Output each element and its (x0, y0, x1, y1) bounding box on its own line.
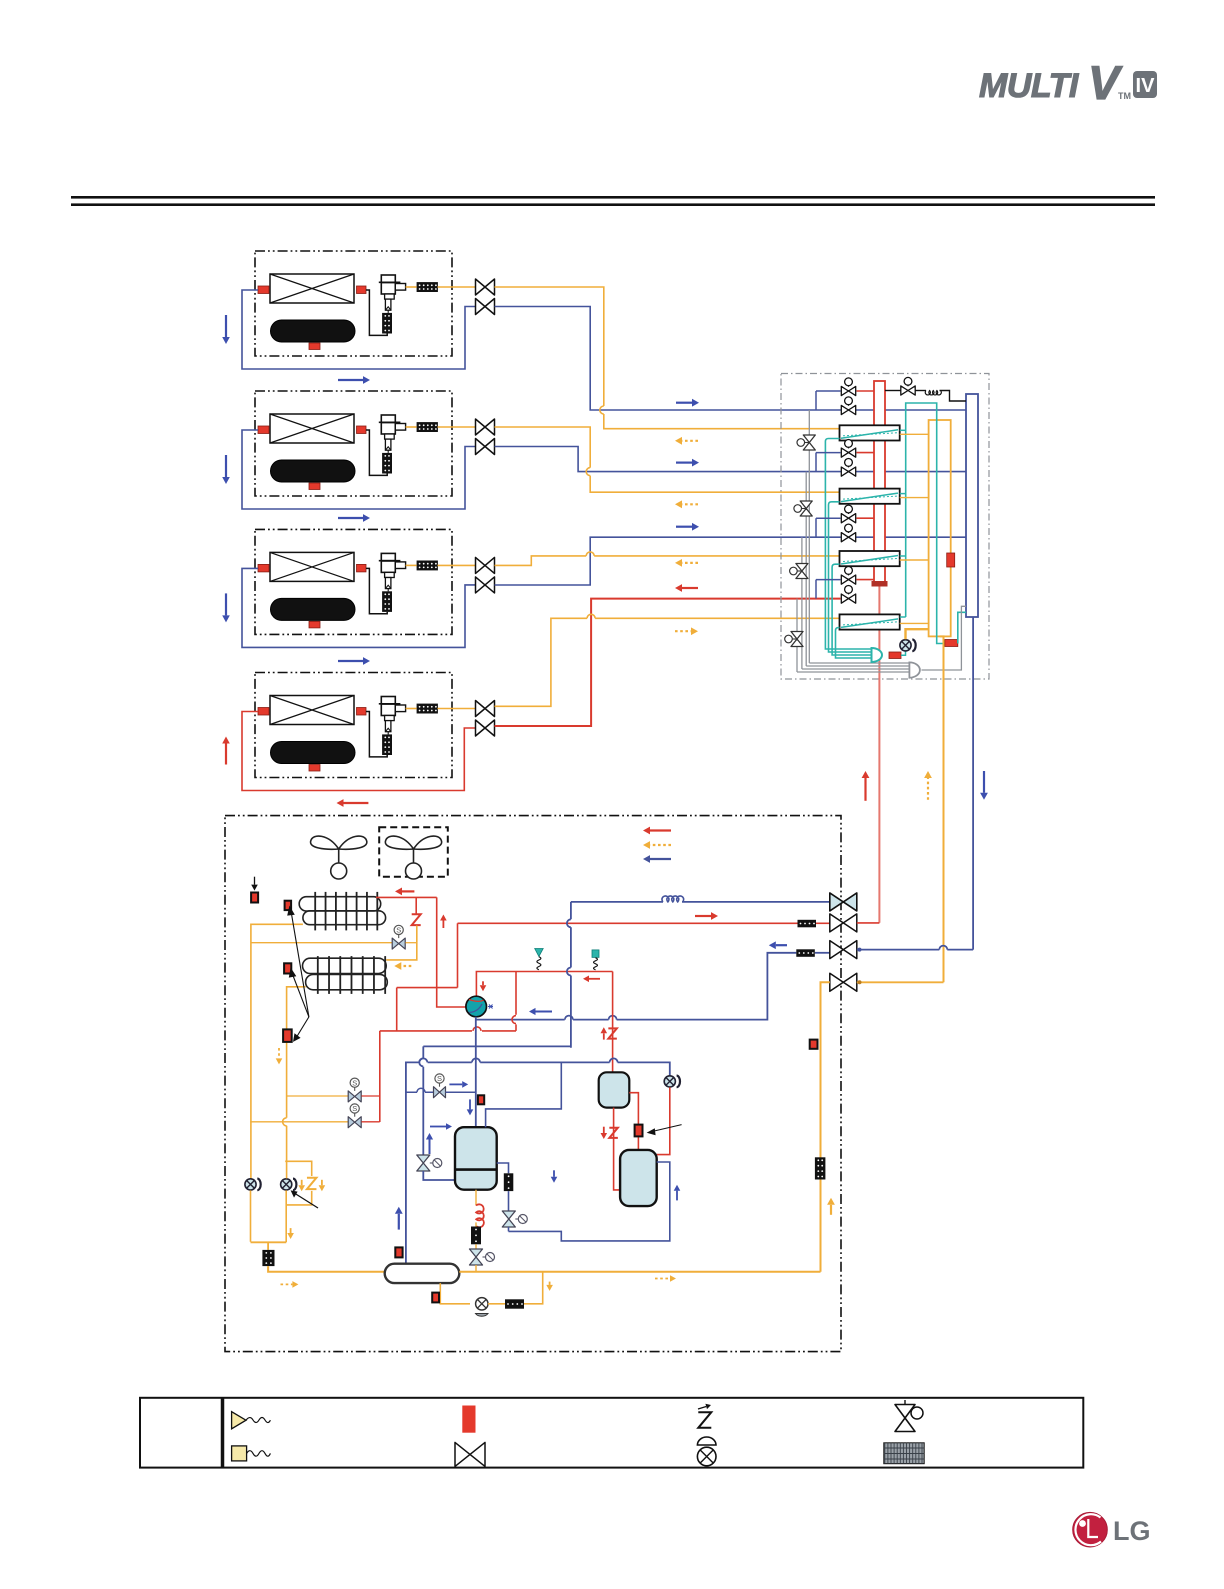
flow arrow right (hot gas) (695, 915, 711, 917)
hot gas bypass solenoid (406, 1091, 434, 1093)
oil/gas return from capped valve line (570, 902, 572, 1048)
HR subcooler 2 liquid out stub (900, 497, 929, 499)
HR branch 4 hot-gas stub (857, 579, 875, 581)
indoor unit 1 air temp sensor (309, 343, 320, 350)
liquid riser strainer (815, 1157, 826, 1179)
key arrow suction (650, 858, 671, 860)
flow arrow left (suction) (776, 944, 787, 946)
HR subcool EEV 1 line (808, 410, 810, 663)
HR subcooler HX 3 (840, 551, 900, 566)
accumulator vessel (455, 1127, 497, 1190)
coil 1 EEV (capillary) (415, 897, 417, 914)
indoor unit 3 heat exchanger (270, 552, 354, 581)
flow arrow left dashed (unit2 liquid) (682, 503, 698, 505)
indoor unit 1 EEV coil head (381, 275, 395, 282)
flow arrow down (indoor unit 1 inlet) (225, 315, 227, 337)
indoor unit 3 liquid strainer (417, 561, 438, 571)
indoor unit 4 wire HX to EEV (366, 712, 387, 757)
flow arrow up (suction riser) (398, 1214, 400, 1230)
coil 1 outlet to left liquid column (251, 924, 303, 1178)
indoor unit 1 wire EEV to strainer (406, 286, 417, 288)
flow arrow down (bypass left) (301, 1180, 303, 1185)
HR subcooler 3 gas out stub (900, 555, 906, 557)
coil 1 temp sensor (285, 901, 292, 910)
third coil temp sensor (283, 1029, 292, 1042)
indoor unit 2 fan blower (271, 460, 356, 482)
HR liquid header (929, 420, 951, 636)
oil heater coil (476, 1204, 484, 1227)
HR high pressure header bottom cap (872, 581, 888, 587)
oil separator out right (629, 1093, 638, 1150)
indoor unit 3 pipe temp sensor (HX left) (258, 564, 269, 572)
indoor unit 1 heat exchanger (270, 274, 354, 303)
HR branch 1 hot-gas stub (857, 390, 875, 392)
coil 2 temp sensor (284, 963, 291, 973)
indoor unit 2 liquid strainer (417, 422, 438, 432)
indoor unit 2 liquid line out (438, 426, 477, 428)
indoor unit 3 wire EEV to strainer (406, 564, 417, 566)
svg-text:S: S (352, 1078, 357, 1087)
indoor unit 2 pipe temp sensor (HX right) (357, 426, 367, 434)
logo MULTI V IV (979, 56, 1157, 109)
ODU liquid service valve (830, 973, 857, 991)
HR injection manifold (872, 648, 883, 662)
accumulator side feed valve (417, 1155, 430, 1171)
svg-text:TM: TM (1118, 91, 1131, 101)
HR subcooler 2 injection downpipe (829, 502, 872, 652)
indoor unit 4 liquid strainer (417, 704, 438, 714)
bottom loop sensor (432, 1293, 439, 1303)
HR branch 2 suction valve (845, 459, 853, 467)
indoor unit 2 liquid service valve (476, 419, 495, 435)
indoor unit 4 fan blower (271, 742, 356, 764)
HR branch 1 suction valve (845, 397, 853, 405)
ODU fan 2 (optional, dashed) (379, 827, 448, 877)
flow arrow right dashed (to receiver) (281, 1283, 293, 1285)
HR subcooler 4 injection downpipe (836, 628, 872, 658)
indoor unit 1 liquid service valve (476, 279, 495, 295)
indoor unit 4 heat exchanger (270, 696, 354, 725)
ODU hot gas service valve (458, 922, 798, 924)
indoor unit 2 pipe temp sensor (HX left) (258, 426, 269, 434)
HR subcooler 4 gas in stub (900, 616, 906, 618)
ODU heat exchanger coil 1 (299, 897, 381, 911)
flow arrow up + EEV (oil return) (603, 1033, 605, 1039)
check valve 2 (coil2 liquid) (281, 1179, 292, 1190)
wire unit1 liquid riser (with hop) (495, 287, 840, 429)
discharge down to oil separator (612, 972, 614, 1073)
indoor unit 3 gas line wire (242, 568, 476, 647)
HR branch 2 hot-gas stub (857, 452, 875, 454)
flow arrow down (indoor unit 2 inlet) (225, 455, 227, 477)
oil line sensor (635, 1125, 643, 1137)
liquid columns merge bar (251, 1242, 287, 1250)
flow arrow right dashed (unit4 liquid) (675, 630, 691, 632)
hot gas riser (457, 923, 459, 987)
flow arrow right (accumulator in) (430, 1126, 446, 1128)
HR relief coil (916, 390, 927, 392)
coil 1 EEV to coil 2 (386, 926, 417, 960)
indoor unit 4 EEV strainer (382, 734, 392, 755)
HR suction drop to outdoor unit (972, 617, 974, 950)
indoor unit 1 EEV strainer (382, 313, 392, 334)
HR subcool EEV 4 line (796, 599, 798, 672)
check valve 1 lower segment (250, 1190, 252, 1241)
indoor unit 4 EEV body (385, 716, 395, 721)
legend strainer symbol (884, 1443, 924, 1464)
svg-text:S: S (352, 1104, 357, 1113)
svg-text:LG: LG (1113, 1516, 1151, 1546)
HR EEV manifold outlet (922, 606, 967, 670)
indoor unit 4 cabinet (255, 673, 452, 778)
flow arrow down (suction) (983, 771, 985, 793)
indoor unit 2 cabinet (255, 391, 452, 496)
defrost solenoid valve 2 (287, 1095, 348, 1097)
legend thermistor symbol (232, 1412, 246, 1429)
flow arrow right (unit3 gas) (676, 526, 692, 528)
HR branch 3 suction valve (845, 524, 853, 532)
check valve 2 bypass EEV (285, 1161, 312, 1205)
compressor feed from coil1 (437, 897, 466, 1007)
coil 1 hot gas line (376, 896, 437, 898)
flow arrow down (column merge) (290, 1228, 292, 1233)
flow arrow down (liquid out) (549, 1282, 551, 1285)
accumulator second port (486, 1062, 562, 1127)
indoor unit 2 EEV body (385, 434, 395, 439)
wire unit3 liquid riser (with hop) (495, 556, 840, 566)
indoor unit 1 fan blower (271, 320, 356, 342)
wire unit2 gas riser (495, 447, 967, 472)
wire unit4 liquid riser (with hop) (495, 618, 840, 706)
flow arrow up (hot gas to HR) (864, 778, 866, 801)
HR branch 4 hot-gas valve (845, 567, 853, 575)
HR branch 3 hot-gas stub (857, 517, 875, 519)
accumulator side port circuit (497, 1163, 509, 1173)
HR branch 3 hot-gas valve (845, 505, 853, 513)
flow arrow right (bypass) (449, 1083, 462, 1085)
HR subcool EEV 4 (785, 635, 793, 643)
HR subcool EEV 3 (790, 567, 798, 575)
HR subcool return to suction header (958, 612, 966, 643)
suction riser to accumulator and economizer return (406, 1062, 670, 1263)
legend EEV(Z) symbol (698, 1412, 711, 1428)
sensor callout arrows (291, 911, 309, 1017)
economizer check valve (664, 1076, 675, 1087)
flow arrow up (indoor unit 4 inlet) (225, 744, 227, 765)
HR subcooler 4 liquid out stub (900, 622, 929, 624)
indoor unit 4 wire EEV to strainer (406, 708, 417, 710)
indoor unit 3 liquid service valve (476, 557, 495, 573)
indoor unit 4 pipe temp sensor (HX left) (258, 708, 269, 716)
indoor unit 2 EEV coil head (381, 415, 395, 422)
indoor unit 3 pipe temp sensor (HX right) (357, 564, 367, 572)
flow arrow right below indoor unit 1 (338, 379, 363, 381)
flow arrow left (coil 1 in) (402, 890, 414, 892)
indoor unit 3 gas service valve (476, 577, 495, 593)
HR subcool EEV 3 line (801, 537, 803, 669)
flow arrow down (right column) (553, 1170, 555, 1177)
indoor unit 1 cabinet (255, 251, 452, 356)
legend table (140, 1398, 1083, 1468)
receiver bottom loop (440, 1283, 470, 1304)
HR top relief valve (885, 390, 901, 392)
flow arrow down (into compressor) (482, 981, 484, 985)
HR branch 1 hot-gas valve (845, 378, 853, 386)
legend pressure sensor symbol (232, 1446, 247, 1461)
HR subcooler HX 4 (840, 614, 900, 629)
discharge pressure sensor (592, 950, 599, 958)
accumulator oil return (475, 1190, 477, 1206)
flow arrow right below indoor unit 2 (338, 517, 363, 519)
svg-text:V: V (1088, 56, 1123, 109)
main liquid strainer (262, 1250, 274, 1266)
subcooling plate HX (620, 1150, 657, 1206)
flow arrow left (unit4 hot gas) (682, 587, 698, 589)
flow arrow up (plate out) (676, 1191, 678, 1201)
HR branch 3 gas select vertical (815, 518, 817, 537)
flow arrow right below indoor unit 3 (338, 660, 363, 662)
receiver out (main liquid line) (459, 1271, 820, 1273)
HR subcool gas return U-pipe (906, 403, 944, 644)
separator double rule (71, 196, 1155, 199)
legend check valve symbol (697, 1437, 716, 1445)
HR unit enclosure (781, 374, 989, 680)
HR branch 2 gas select vertical (815, 453, 817, 472)
key arrow hot gas (650, 829, 671, 831)
indoor unit 4 gas line wire (242, 712, 476, 791)
HR hot gas drop to outdoor unit (878, 587, 880, 923)
ODU suction service valve (476, 953, 796, 1020)
indoor unit 4 liquid line out (438, 708, 477, 710)
HR liquid header sensor (947, 553, 955, 567)
ODU ambient sensor arrow (254, 877, 256, 885)
key arrow liquid dashed (650, 844, 671, 846)
HR subcooler 3 liquid out stub (900, 559, 929, 561)
svg-text:IV: IV (1136, 75, 1156, 97)
wire unit1 gas riser (495, 307, 967, 411)
legend sensor symbol (462, 1406, 475, 1433)
receiver (liquid tank) (385, 1264, 460, 1283)
HR subcooler 2 gas out stub (900, 493, 906, 495)
wire unit2 liquid riser (with hop) (495, 427, 840, 492)
HR subcool return sensor (945, 640, 958, 647)
indoor unit 1 pipe temp sensor (HX right) (357, 286, 367, 294)
HR subcooler 3 injection downpipe (832, 564, 871, 655)
solenoid feed drop (379, 1031, 381, 1122)
bottom loop dryer (488, 1303, 505, 1305)
flow arrow left below indoor unit 4 (344, 802, 369, 804)
indoor unit 2 gas line wire (242, 430, 476, 509)
liquid header below coil1 (397, 987, 458, 989)
indoor unit 1 wire HX to EEV (366, 290, 387, 335)
flow arrow right dashed (main liquid) (655, 1278, 670, 1280)
indoor unit 2 gas service valve (476, 439, 495, 455)
outdoor unit enclosure (225, 816, 841, 1352)
compressor (466, 996, 487, 1017)
indoor unit 1 EEV body (385, 294, 395, 299)
flow arrow left (suction to compressor) (536, 1011, 553, 1013)
ODU heat exchanger coil 2 (303, 958, 387, 973)
ODU ambient temp sensor (251, 893, 258, 903)
indoor unit 4 EEV coil head (381, 697, 395, 704)
HR suction gas header (966, 394, 978, 617)
legend subcool EEV symbol (895, 1405, 915, 1432)
defrost solenoid valve 1 (251, 942, 392, 944)
return manifold horizontal (423, 1045, 571, 1047)
indoor unit 1 liquid strainer (417, 282, 438, 292)
oil separator bottom return (614, 1108, 621, 1190)
indoor unit 1 gas line wire (242, 290, 476, 369)
HR branch 1 gas select vertical (815, 391, 817, 410)
coil2 column lower segment (285, 1157, 287, 1242)
indoor unit 3 cabinet (255, 529, 452, 634)
svg-text:S: S (437, 1074, 442, 1083)
wire unit3 gas riser (495, 537, 967, 585)
HR branch 4 gas select vertical (815, 580, 817, 599)
indoor unit 3 liquid line out (438, 564, 477, 566)
subcool plate gas out (509, 1162, 670, 1241)
indoor unit 2 wire EEV to strainer (406, 426, 417, 428)
flow arrow up dashed (liquid) (927, 778, 929, 800)
svg-text:S: S (396, 926, 401, 935)
check valve 1 (main liquid) (245, 1179, 256, 1190)
compressor suction pipe (475, 1017, 477, 1127)
flow arrow left (discharge) (589, 978, 600, 980)
indoor unit 1 pipe temp sensor (HX left) (258, 286, 269, 294)
HR subcooler 1 injection downpipe (825, 439, 871, 650)
flow arrow right (unit1 gas) (676, 402, 692, 404)
HR subcool EEV 1 (797, 439, 805, 447)
HR high pressure gas header (874, 381, 885, 583)
indoor unit 2 air temp sensor (309, 483, 320, 490)
indoor unit 3 air temp sensor (309, 621, 320, 628)
HR EEV manifold (909, 662, 920, 677)
indoor unit 3 EEV strainer (382, 591, 392, 612)
indoor unit 3 wire HX to EEV (366, 568, 387, 613)
HR relief pipe to suction header (940, 391, 967, 402)
svg-text:MULTI: MULTI (979, 67, 1080, 105)
discharge thermistor (535, 949, 544, 957)
callout arrow to check valve 2 (295, 1194, 318, 1209)
flow arrow left dashed (coil 2) (401, 965, 411, 967)
coil 2 outlet to liquid column (287, 987, 306, 1157)
flow arrow up (liquid riser) (830, 1205, 832, 1215)
compressor suction sensor (478, 1095, 484, 1104)
ODU fan 1 (311, 836, 367, 849)
liquid riser sensor (810, 1040, 818, 1049)
flow arrow down (into accumulator) (469, 1099, 471, 1109)
accumulator inlet sensor (395, 1247, 402, 1257)
flow arrow down dashed (left column) (278, 1048, 280, 1058)
sensor callout (652, 1125, 682, 1132)
indoor unit 4 gas service valve (476, 720, 495, 736)
indoor unit 4 liquid service valve (476, 701, 495, 717)
HR injection check valve (901, 651, 906, 656)
HR injection to liquid header (thick) (906, 629, 929, 639)
flow arrow down + EEV (oil return) (603, 1127, 605, 1133)
indoor unit 1 liquid line out (438, 286, 477, 288)
sight glass (476, 1298, 488, 1310)
flow arrow left dashed (unit3 liquid) (682, 562, 698, 564)
indoor unit 2 EEV strainer (382, 453, 392, 474)
legend valve symbol (455, 1442, 485, 1466)
HR subcooler HX 1 (840, 425, 900, 440)
indoor unit 1 gas service valve (476, 299, 495, 315)
HR liquid drop to outdoor unit (940, 636, 944, 982)
HR branch 2 hot-gas valve (845, 440, 853, 448)
indoor unit 4 air temp sensor (309, 765, 320, 772)
indoor unit 3 fan blower (271, 598, 356, 620)
defrost solenoid valve 3 (250, 1121, 348, 1123)
strainer to accumulator tank (268, 1266, 385, 1272)
defrost hot-gas feed line (380, 1030, 516, 1032)
HR branch 4 suction valve (845, 586, 853, 594)
indoor unit 2 wire HX to EEV (366, 430, 387, 475)
HR subcooler 1 gas out stub (900, 429, 906, 431)
flow arrow left dashed (unit1 liquid) (682, 440, 698, 442)
HR injection manifold sensor (889, 652, 901, 659)
flow arrow down (bypass right) (321, 1180, 323, 1185)
suction line to capped valve with coil (571, 901, 663, 903)
indoor unit 4 pipe temp sensor (HX right) (357, 708, 367, 716)
indoor unit 3 EEV coil head (381, 553, 395, 560)
LG logo (1073, 1512, 1151, 1547)
accumulator side feed drop (422, 1046, 424, 1155)
oil separator (599, 1072, 630, 1107)
indoor unit 3 EEV body (385, 572, 395, 577)
HR subcooler 1 liquid out stub (900, 433, 929, 435)
HR subcool EEV 2 (794, 505, 802, 513)
HR subcool EEV 2 line (805, 472, 807, 666)
flow arrow up (side feed) (429, 1140, 431, 1155)
flow arrow up (hot gas riser) (442, 921, 444, 929)
flow arrow down (indoor unit 3 inlet) (225, 593, 227, 615)
wire unit4 hot gas riser (495, 599, 841, 726)
compressor discharge riser (476, 972, 612, 997)
indoor unit 2 heat exchanger (270, 414, 354, 443)
flow arrow right (unit2 gas) (676, 462, 692, 464)
HR subcooler HX 2 (840, 489, 900, 504)
check valve to subcool plate (657, 1087, 670, 1154)
